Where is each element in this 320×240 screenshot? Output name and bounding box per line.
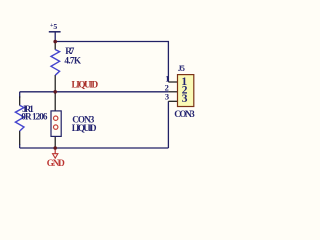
svg-text:4.7K: 4.7K: [64, 56, 81, 66]
svg-text:0R 1206: 0R 1206: [21, 111, 48, 121]
svg-text:GND: GND: [47, 158, 65, 168]
svg-text:3: 3: [182, 93, 188, 105]
svg-text:R7: R7: [65, 46, 75, 56]
svg-text:CON3: CON3: [174, 109, 195, 119]
svg-text:LIQUID: LIQUID: [72, 80, 99, 90]
svg-text:5: 5: [181, 64, 185, 73]
svg-text:3: 3: [165, 92, 169, 102]
svg-text:LIQUID: LIQUID: [72, 123, 97, 133]
svg-text:5: 5: [53, 22, 57, 31]
